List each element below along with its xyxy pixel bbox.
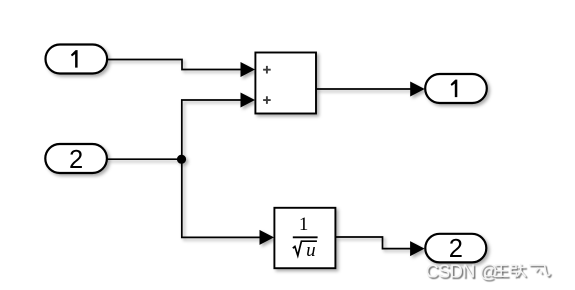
wire Sqrt output to Out2 — [335, 237, 412, 249]
outport Out2 — [425, 234, 486, 263]
svg-text:1: 1 — [299, 214, 309, 235]
svg-text:u: u — [306, 240, 316, 261]
arrowhead Sqrt input — [260, 230, 275, 245]
outport Out1 — [425, 74, 487, 103]
svg-text:2: 2 — [69, 146, 83, 174]
hanzi zhang bow radical — [511, 265, 517, 277]
hanzi zhang long part — [517, 264, 525, 277]
wire junction down to Sqrt block — [182, 159, 261, 237]
hanzi wang — [494, 265, 508, 276]
wire In2 to junction — [107, 158, 182, 160]
watermark CSDN @wangzhangfei (embossed) — [426, 261, 550, 281]
arrowhead Out2 — [410, 241, 425, 256]
svg-text:CSDN @: CSDN @ — [426, 261, 498, 281]
wire Sum output to Out1 — [316, 88, 412, 90]
svg-text:2: 2 — [449, 235, 463, 263]
wire junction up to Sum input 2 — [182, 100, 242, 159]
radical sign — [293, 241, 317, 255]
arrowhead Out1 — [410, 82, 425, 97]
math function block 1/sqrt(u) — [274, 208, 335, 268]
junction node — [177, 155, 186, 164]
inport In1 — [46, 45, 108, 74]
plus sign 2 — [263, 96, 271, 104]
hanzi fei — [529, 265, 550, 276]
arrowhead Sum input 2 — [241, 93, 256, 108]
sum block Add — [255, 53, 316, 114]
inport In2 — [45, 144, 107, 174]
wire In1 to Sum input 1 — [107, 60, 242, 70]
plus sign 1 — [263, 66, 271, 74]
fraction bar — [293, 236, 318, 238]
arrowhead Sum input 1 — [241, 62, 256, 77]
